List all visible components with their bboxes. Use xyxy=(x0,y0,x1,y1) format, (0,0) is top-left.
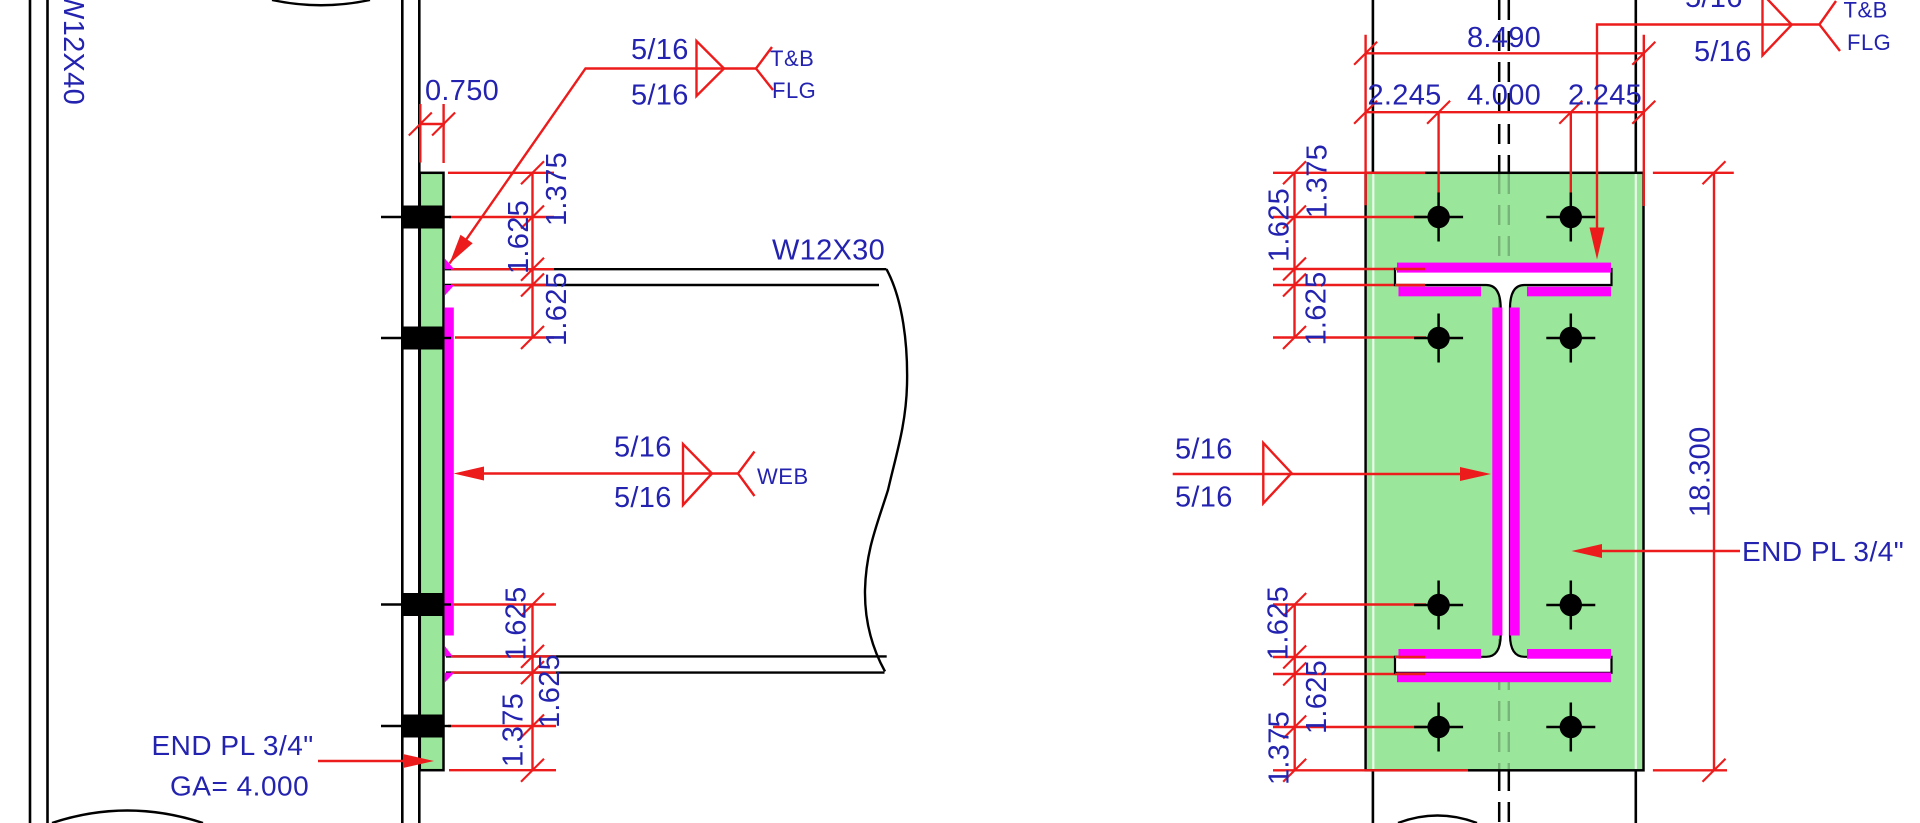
break arc bottom left xyxy=(52,811,203,823)
ext flange top xyxy=(1273,268,1425,270)
svg-text:18.300: 18.300 xyxy=(1685,427,1717,518)
dimension 0.750 ticks xyxy=(409,113,432,136)
ext line bottom flange bottom xyxy=(451,671,556,673)
ext bottom flange bottom xyxy=(1273,673,1425,675)
svg-text:0.750: 0.750 xyxy=(425,75,499,107)
svg-text:4.000: 4.000 xyxy=(1467,80,1541,112)
svg-text:END PL 3/4": END PL 3/4" xyxy=(152,730,314,761)
right web weld leader xyxy=(1173,473,1462,475)
weld symbol tail fork xyxy=(756,47,773,90)
right END PL leader xyxy=(1602,550,1740,552)
svg-text:1.625: 1.625 xyxy=(1264,188,1296,262)
ext line bottom flange top xyxy=(451,655,556,657)
dimension 0.750 extension line left xyxy=(419,104,421,163)
web weld leader arrowhead xyxy=(454,467,485,481)
weld top flange top strip xyxy=(1397,263,1611,273)
svg-text:2.245: 2.245 xyxy=(1368,80,1442,112)
dimension 18.300 ext bottom xyxy=(1653,769,1727,771)
dimension 0.750 extension line right xyxy=(442,104,444,163)
end plate (green) xyxy=(1367,174,1643,769)
ext bottom flange top xyxy=(1273,656,1425,658)
web weld bar (side) xyxy=(445,308,454,636)
flange weld fillet below top flange xyxy=(445,285,455,296)
end plate PL3/4 (side) xyxy=(420,173,444,770)
ext plate bottom xyxy=(1273,769,1468,771)
web weld symbol tail fork xyxy=(738,452,755,497)
column flange edge below plate left xyxy=(1372,770,1375,823)
column W12X40 far flange edge line 2 xyxy=(46,0,49,823)
svg-text:1.625: 1.625 xyxy=(1301,271,1333,345)
weld under top flange right xyxy=(1527,287,1611,297)
svg-text:2.245: 2.245 xyxy=(1568,80,1642,112)
break arc top xyxy=(272,0,370,5)
svg-text:5/16: 5/16 xyxy=(1685,0,1743,14)
svg-text:1.375: 1.375 xyxy=(498,693,530,767)
weld under top flange left xyxy=(1399,287,1482,297)
ext plate top xyxy=(1273,172,1425,174)
dimension 2.245/4.000/2.245 line xyxy=(1366,111,1644,113)
svg-text:5/16: 5/16 xyxy=(1694,36,1752,68)
weld above bottom flange left xyxy=(1399,649,1482,659)
top weld leader xyxy=(1597,25,1819,229)
END PL leader arrowhead xyxy=(403,754,434,768)
ext line overlays across beam section xyxy=(1395,268,1425,270)
beam W12X30 top flange top line xyxy=(445,268,887,270)
svg-text:W12X30: W12X30 xyxy=(772,235,885,267)
beam W12X30 top flange bottom line xyxy=(445,284,879,286)
weld symbol triangle T&B FLG xyxy=(697,41,725,96)
svg-text:1.625: 1.625 xyxy=(534,654,566,728)
column flange edge above plate right xyxy=(1635,0,1638,173)
plate outline xyxy=(1366,173,1644,771)
hidden column flange edge left (behind plate) xyxy=(1372,174,1374,769)
dimension 8.490 ext right xyxy=(1643,35,1645,206)
svg-text:1.625: 1.625 xyxy=(503,200,535,274)
ext line bolt row1 xyxy=(449,216,554,218)
svg-text:GA= 4.000: GA= 4.000 xyxy=(170,771,309,802)
svg-text:1.375: 1.375 xyxy=(1302,144,1334,218)
svg-text:1.375: 1.375 xyxy=(541,152,573,226)
ext flange bottom xyxy=(1273,284,1425,286)
ext bolt row1 xyxy=(1273,216,1426,218)
ext bolt row4 xyxy=(1273,726,1426,728)
top weld symbol tail fork xyxy=(1819,1,1840,51)
bolt row 3 xyxy=(381,593,451,616)
svg-text:W12X40: W12X40 xyxy=(57,0,89,105)
svg-text:5/16: 5/16 xyxy=(631,80,689,112)
ext bolt row3 xyxy=(1273,603,1426,605)
weld web right bar xyxy=(1510,308,1520,636)
weld above bottom flange right xyxy=(1527,649,1611,659)
svg-text:FLG: FLG xyxy=(772,78,816,103)
svg-text:1.625: 1.625 xyxy=(541,272,573,346)
ext bolt row2 xyxy=(1273,336,1426,338)
svg-text:T&B: T&B xyxy=(770,46,814,71)
right web weld symbol triangle xyxy=(1263,443,1291,503)
beam I-section outline (white) xyxy=(1395,269,1612,673)
END PL leader line xyxy=(318,760,406,762)
svg-text:5/16: 5/16 xyxy=(1175,434,1233,466)
beam break S-curve xyxy=(865,269,907,671)
svg-text:1.375: 1.375 xyxy=(1264,711,1296,785)
column W12X40 near flange edge line 1 xyxy=(401,0,404,823)
ext line bolt row2 xyxy=(455,336,554,338)
web weld leader line xyxy=(482,472,738,474)
flange weld fillet above bottom flange xyxy=(445,646,453,656)
ext line plate top xyxy=(448,172,554,174)
right view left chain (bottom) xyxy=(1293,605,1295,771)
dimension 8.490 line xyxy=(1366,52,1644,54)
svg-text:5/16: 5/16 xyxy=(614,482,672,514)
svg-text:8.490: 8.490 xyxy=(1467,22,1541,54)
top weld leader arrowhead xyxy=(1590,228,1605,260)
ticks top chain xyxy=(521,161,544,184)
svg-text:1.625: 1.625 xyxy=(1263,586,1295,660)
column W12X40 far flange edge line 1 xyxy=(29,0,32,823)
ticks bottom chain xyxy=(521,593,544,616)
right END PL arrowhead xyxy=(1572,544,1603,558)
hidden column flange edge right (behind plate) xyxy=(1635,174,1637,769)
dimension 18.300 line xyxy=(1713,173,1715,771)
column W12X40 near flange edge line 2 xyxy=(418,0,421,823)
top weld symbol triangle xyxy=(1763,0,1792,55)
svg-text:END PL 3/4": END PL 3/4" xyxy=(1742,536,1904,567)
web weld symbol triangle xyxy=(683,444,712,505)
gauge line right bolts xyxy=(1570,112,1572,193)
ext line bolt row4 xyxy=(448,725,556,727)
hidden web centerlines (behind plate) xyxy=(1498,174,1500,769)
column web centerlines below plate xyxy=(1498,771,1501,823)
svg-text:5/16: 5/16 xyxy=(1175,482,1233,514)
column flange edge below plate right xyxy=(1635,770,1638,823)
column flange edge above plate left xyxy=(1372,0,1375,173)
svg-text:1.625: 1.625 xyxy=(501,586,533,660)
gauge line left bolts xyxy=(1437,112,1439,193)
column web centerlines above plate xyxy=(1498,0,1501,172)
svg-text:FLG: FLG xyxy=(1847,30,1891,55)
dimension 8.490 ext left xyxy=(1364,35,1366,206)
bolt row 4 xyxy=(381,715,451,738)
flange weld fillet above top flange xyxy=(445,259,455,270)
svg-text:5/16: 5/16 xyxy=(614,432,672,464)
break arc bottom right view xyxy=(1398,816,1477,823)
right web weld arrowhead xyxy=(1460,467,1491,481)
ext line plate bottom xyxy=(449,769,556,771)
bolts end view xyxy=(1414,193,1463,242)
bolt row 1 xyxy=(381,206,451,229)
dimension 18.300 ext top xyxy=(1653,172,1734,174)
flange weld fillet below bottom flange xyxy=(445,673,455,683)
bottom dimension chain line xyxy=(531,605,533,771)
weld bottom flange bottom strip xyxy=(1397,673,1611,683)
beam W12X30 bottom flange bottom line xyxy=(446,671,885,673)
bolt row 2 xyxy=(381,327,451,350)
leader arrowhead xyxy=(450,235,473,264)
beam W12X30 bottom flange top line xyxy=(446,655,887,657)
ext line bolt row3 xyxy=(448,603,556,605)
dimension 0.750 line xyxy=(419,123,445,125)
svg-text:5/16: 5/16 xyxy=(631,34,689,66)
svg-text:T&B: T&B xyxy=(1844,0,1888,23)
ext line flange bottom xyxy=(451,284,554,286)
ext line flange top xyxy=(451,268,554,270)
svg-text:1.625: 1.625 xyxy=(1301,660,1333,734)
leader to flange weld (diagonal + horizontal) xyxy=(450,69,757,264)
weld web left bar xyxy=(1492,308,1502,636)
svg-text:WEB: WEB xyxy=(757,464,809,489)
top dimension chain line xyxy=(531,173,533,338)
right view left chain (top) xyxy=(1293,173,1295,338)
